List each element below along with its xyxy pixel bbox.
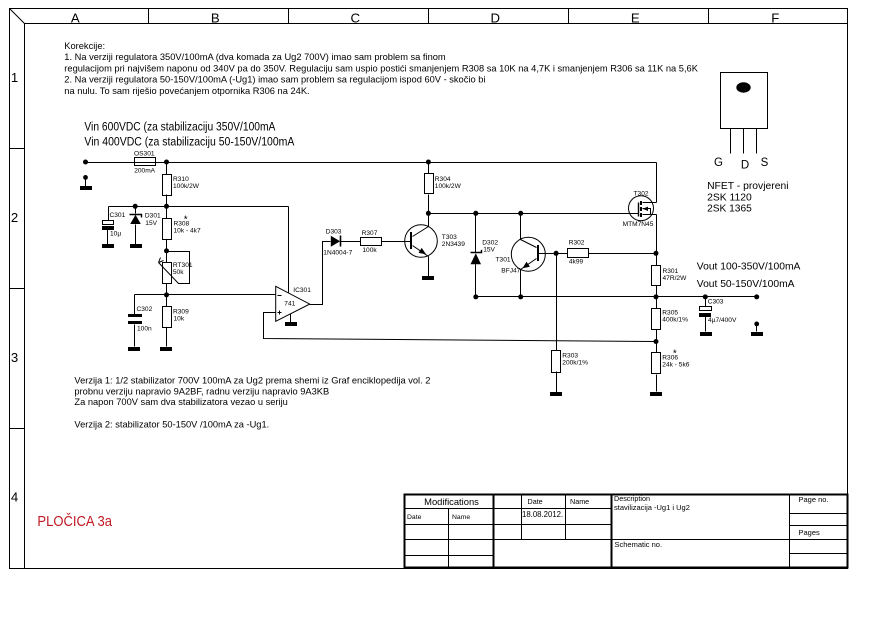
junction R305-R306: [654, 339, 659, 344]
ground R309: [160, 347, 172, 351]
svg-text:47R/2W: 47R/2W: [663, 275, 688, 282]
resistor R305 400k/1%: [652, 297, 689, 342]
svg-text:regulacijom pri najvišem napon: regulacijom pri najvišem naponu od 340V …: [64, 63, 698, 73]
svg-text:MTM7N45: MTM7N45: [623, 221, 654, 228]
junction R302-source: [654, 251, 659, 256]
Vin labels: [84, 120, 295, 149]
title block: [404, 495, 848, 568]
svg-text:Date: Date: [528, 497, 543, 506]
resistor R310: [163, 163, 200, 207]
capacitor C301 10u: [102, 207, 126, 245]
svg-text:E: E: [631, 10, 640, 25]
junction D302 bottom: [473, 294, 478, 299]
svg-text:1. Na verziji regulatora 350V/: 1. Na verziji regulatora 350V/100mA (dva…: [64, 52, 446, 62]
svg-text:Modifications: Modifications: [424, 496, 479, 507]
svg-text:T302: T302: [634, 190, 649, 197]
svg-text:4k99: 4k99: [569, 259, 584, 266]
svg-text:A: A: [71, 10, 80, 25]
svg-text:18.08.2012.: 18.08.2012.: [522, 510, 563, 519]
junction T301 base-R303: [554, 251, 559, 256]
capacitor C303 4u7/400V: [699, 294, 737, 331]
svg-text:Verzija 1: 1/2 stabilizator 70: Verzija 1: 1/2 stabilizator 700V 100mA z…: [74, 376, 430, 386]
svg-text:Vout 100-350V/100mA: Vout 100-350V/100mA: [697, 262, 801, 273]
node Vout terminal: [754, 294, 759, 299]
svg-text:Schematic no.: Schematic no.: [615, 540, 663, 549]
svg-text:100k/2W: 100k/2W: [435, 183, 462, 190]
svg-text:Page no.: Page no.: [799, 495, 829, 504]
svg-text:R305: R305: [662, 309, 678, 316]
ground output terminal: [751, 322, 763, 337]
svg-text:R302: R302: [569, 240, 585, 247]
resistor R309 10k: [163, 295, 190, 347]
svg-text:RT301: RT301: [173, 262, 193, 269]
wire output bus: [476, 296, 757, 298]
wire gate drive: [429, 213, 639, 215]
junction supply-R308: [164, 204, 169, 209]
wire 15V supply rail: [109, 207, 289, 293]
svg-text:Name: Name: [570, 497, 589, 506]
svg-text:200mA: 200mA: [134, 168, 155, 175]
svg-text:Za napon 700V sam dva stabiliz: Za napon 700V sam dva stabilizatora veza…: [74, 397, 287, 407]
resistor R308 10k-4k7: [163, 207, 201, 251]
resistor R304 100k/2W: [425, 163, 462, 214]
svg-text:C302: C302: [137, 306, 153, 313]
svg-text:R309: R309: [173, 309, 189, 316]
svg-text:BFJ47: BFJ47: [501, 268, 520, 275]
svg-text:R307: R307: [362, 230, 378, 237]
ground D301: [130, 244, 142, 248]
trimmer RT301 50k: [159, 251, 193, 295]
junction R304-T303: [426, 211, 431, 216]
svg-text:3: 3: [11, 350, 18, 365]
svg-text:OS301: OS301: [134, 151, 155, 158]
svg-text:100n: 100n: [137, 325, 152, 332]
NFET package TO-220 drawing: [721, 73, 768, 154]
svg-text:Korekcije:: Korekcije:: [64, 41, 105, 51]
svg-text:probnu verziju napravio 9A2BF,: probnu verziju napravio 9A2BF, radnu ver…: [74, 386, 329, 396]
transistor T303 2N3439: [405, 214, 466, 277]
diode D301 zener 15V: [130, 207, 161, 245]
junction D302 top: [473, 211, 478, 216]
svg-text:D301: D301: [145, 213, 161, 220]
svg-text:S: S: [761, 157, 769, 169]
wire op-amp output: [310, 242, 331, 305]
svg-text:R310: R310: [173, 176, 189, 183]
svg-text:1: 1: [11, 70, 18, 85]
svg-text:na nulu. To sam riješio poveća: na nulu. To sam riješio povećanjem otpor…: [64, 86, 309, 96]
transistor T301 BFJ47: [496, 214, 568, 297]
svg-text:B: B: [211, 10, 220, 25]
svg-text:2SK 1365: 2SK 1365: [707, 204, 752, 215]
svg-text:100k: 100k: [362, 247, 377, 254]
svg-text:15V: 15V: [483, 247, 495, 254]
svg-text:D302: D302: [482, 240, 498, 247]
svg-text:T301: T301: [496, 257, 511, 264]
resistor R302 4k99: [568, 240, 657, 266]
resistor R307 100k: [361, 230, 411, 254]
Vout labels: [697, 262, 801, 291]
junction rail-R310: [164, 160, 169, 165]
svg-text:D303: D303: [326, 229, 342, 236]
svg-text:C303: C303: [708, 299, 724, 306]
svg-text:Verzija 2: stabilizator 50-150: Verzija 2: stabilizator 50-150V /100mA z…: [74, 420, 269, 430]
diode D303 1N4004-7: [323, 229, 360, 257]
NFET note: [707, 181, 788, 215]
svg-text:Pages: Pages: [799, 528, 821, 537]
capacitor C302 100n: [128, 295, 153, 347]
svg-text:R303: R303: [562, 352, 578, 359]
svg-text:Vin 600VDC (za stabilizaciju 3: Vin 600VDC (za stabilizaciju 350V/100mA: [84, 120, 276, 134]
svg-text:1N4004-7: 1N4004-7: [323, 250, 352, 257]
svg-text:2: 2: [11, 210, 18, 225]
junction rail-R304: [426, 160, 431, 165]
svg-text:IC301: IC301: [293, 287, 311, 294]
svg-text:2N3439: 2N3439: [442, 241, 465, 248]
resistor R306 24k-5k6: [652, 342, 690, 392]
verzija notes: [74, 376, 430, 430]
fuse OS301 200mA: [134, 151, 156, 175]
junction supply-D301: [133, 204, 138, 209]
svg-text:10k: 10k: [174, 316, 185, 323]
wire inverting input: [135, 294, 276, 296]
svg-text:Description: Description: [614, 494, 650, 503]
pin label G: [714, 157, 723, 169]
svg-text:C: C: [351, 10, 361, 25]
junction RT301-bottom: [164, 292, 169, 297]
svg-text:T303: T303: [442, 234, 457, 241]
wire Vin rail: [86, 162, 657, 164]
ground C303: [700, 332, 712, 336]
resistor R301 47R/2W: [652, 266, 688, 297]
svg-text:2. Na verziji regulatora 50-15: 2. Na verziji regulatora 50-150V/100mA (…: [64, 75, 485, 85]
node Vin terminal: [83, 160, 88, 165]
ground IC301: [285, 314, 297, 327]
svg-text:*: *: [673, 349, 677, 360]
svg-text:PLOČICA 3a: PLOČICA 3a: [37, 513, 112, 530]
ground R303: [550, 392, 562, 396]
junction R308-RT301: [164, 248, 169, 253]
svg-text:Vin 400VDC (za stabilizaciju 5: Vin 400VDC (za stabilizaciju 50-150V/100…: [84, 135, 295, 149]
resistor R303 200k/1%: [552, 254, 589, 393]
svg-text:stavilizacija -Ug1 i Ug2: stavilizacija -Ug1 i Ug2: [614, 503, 690, 512]
svg-text:100k/2W: 100k/2W: [173, 183, 200, 190]
svg-text:D: D: [741, 160, 749, 172]
svg-text:2SK 1120: 2SK 1120: [707, 192, 752, 203]
mosfet T302 MTM7N45: [623, 163, 657, 266]
diode D302 zener 15V: [471, 214, 499, 297]
svg-text:4: 4: [11, 490, 18, 505]
svg-text:Name: Name: [452, 514, 470, 521]
svg-text:D: D: [491, 10, 501, 25]
pin label D: [741, 160, 749, 172]
svg-text:Date: Date: [407, 514, 422, 521]
svg-text:4µ7/400V: 4µ7/400V: [708, 317, 737, 324]
svg-text:C301: C301: [110, 212, 126, 219]
main notes text: [64, 41, 698, 96]
ground input terminal: [80, 175, 92, 190]
svg-text:400k/1%: 400k/1%: [662, 316, 688, 323]
op-amp IC301 741: [276, 286, 312, 321]
svg-text:200k/1%: 200k/1%: [562, 359, 588, 366]
ground T303: [422, 276, 434, 280]
ground C302: [128, 347, 140, 351]
junction R301-R305: [654, 294, 659, 299]
wire op-amp + input feedback: [264, 313, 657, 342]
svg-text:R304: R304: [435, 176, 451, 183]
pin label S: [761, 157, 769, 169]
svg-text:NFET - provjereni: NFET - provjereni: [707, 181, 788, 192]
ground C301: [102, 244, 114, 248]
svg-text:50k: 50k: [173, 269, 184, 276]
svg-text:15V: 15V: [145, 220, 157, 227]
junction T301 emitter: [518, 294, 523, 299]
junction T301 collector: [518, 211, 523, 216]
svg-text:10k - 4k7: 10k - 4k7: [174, 227, 201, 234]
svg-text:Vout 50-150V/100mA: Vout 50-150V/100mA: [697, 279, 795, 290]
svg-text:24k - 5k6: 24k - 5k6: [662, 362, 689, 369]
svg-text:*: *: [184, 215, 188, 226]
svg-text:F: F: [771, 10, 779, 25]
svg-text:R301: R301: [663, 268, 679, 275]
svg-text:10µ: 10µ: [110, 230, 121, 237]
svg-text:G: G: [714, 157, 723, 169]
ground R306: [650, 392, 662, 396]
svg-text:741: 741: [284, 301, 295, 308]
